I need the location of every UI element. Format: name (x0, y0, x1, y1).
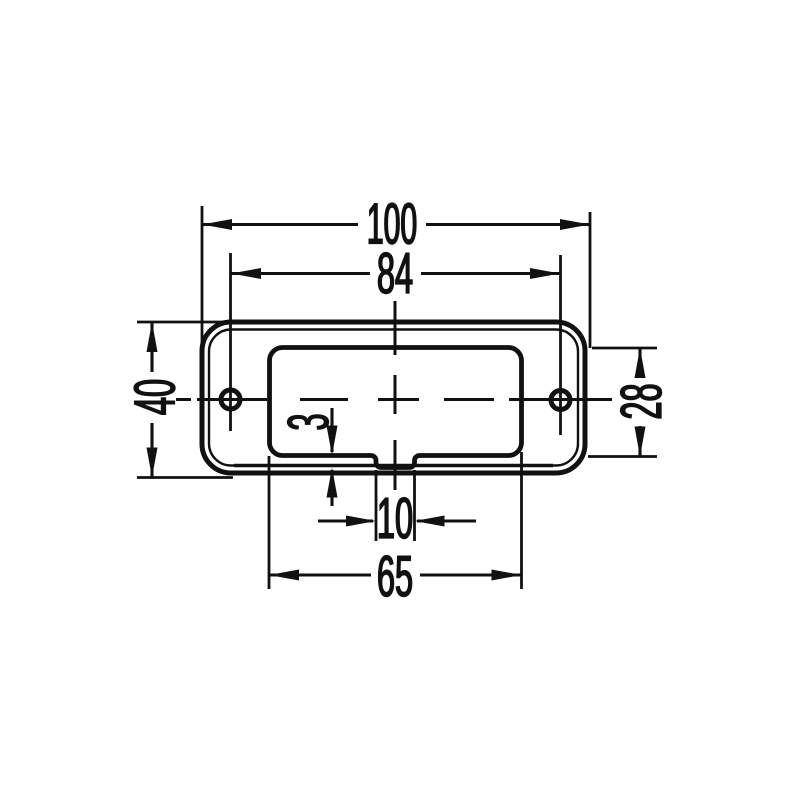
arrow right 100 (560, 219, 590, 230)
dimension 3 (288, 408, 338, 506)
dimension line 100 (202, 223, 358, 226)
dimension line 28 (638, 348, 641, 377)
extension line right for 65 (520, 452, 523, 589)
extension line left for 100 (201, 206, 204, 353)
label 40 (134, 380, 175, 414)
extension line left for 65 (268, 456, 271, 589)
lens outline with bottom notch (270, 348, 522, 468)
arrow left 84 (231, 268, 261, 279)
label 84 (378, 253, 412, 294)
right mounting hole (551, 391, 570, 410)
dimension 84 (231, 253, 560, 294)
dimension 65 (269, 452, 522, 597)
right pointer line for 10 (417, 519, 476, 522)
extension line bottom for 28 (588, 455, 657, 458)
arrow right 84 (530, 268, 560, 279)
extension line left for 10 (375, 470, 378, 541)
arrow up to notch for 3 (327, 468, 338, 498)
right hole centerline / 84 extension (559, 255, 562, 435)
dimension line 40 (150, 322, 153, 372)
lower pointer line for 3 (330, 470, 333, 506)
left mounting hole (221, 390, 240, 409)
arrow down to lens edge for 3 (327, 426, 338, 456)
arrow right for 10 (346, 516, 376, 527)
arrow down 40 (147, 448, 158, 478)
dimension line 84 (231, 272, 370, 275)
label 10 (379, 498, 411, 539)
label 100 (369, 203, 416, 244)
vertical centerline (394, 301, 397, 490)
arrow up 28 (635, 348, 646, 378)
housing inner wall line (209, 330, 578, 466)
extension line top for 28 (592, 347, 657, 350)
left hole centerline / 84 extension (229, 253, 232, 431)
extension line right for 100 (589, 212, 592, 348)
arrow left for 10 (415, 516, 445, 527)
arrow right 65 (492, 570, 522, 581)
dimension line 65 (269, 573, 371, 576)
upper pointer line for 3 (330, 408, 333, 452)
housing bottom step line (234, 464, 553, 467)
arrow left 100 (202, 219, 232, 230)
label 3 (288, 415, 329, 429)
left pointer line for 10 (318, 519, 373, 522)
dimension 10 (318, 470, 476, 541)
dimension 40 (134, 322, 233, 478)
arrow up 40 (147, 322, 158, 352)
label 65 (379, 556, 412, 597)
extension line top for 40 (137, 321, 233, 324)
dimension 28 (588, 348, 662, 457)
label 28 (621, 385, 662, 418)
extension line right for 10 (413, 470, 416, 541)
arrow down 28 (635, 427, 646, 457)
dimension 100 (202, 203, 590, 353)
outer housing contour (202, 322, 585, 473)
horizontal centerline (176, 398, 612, 401)
extension line bottom for 40 (137, 476, 233, 479)
arrow left 65 (269, 570, 299, 581)
